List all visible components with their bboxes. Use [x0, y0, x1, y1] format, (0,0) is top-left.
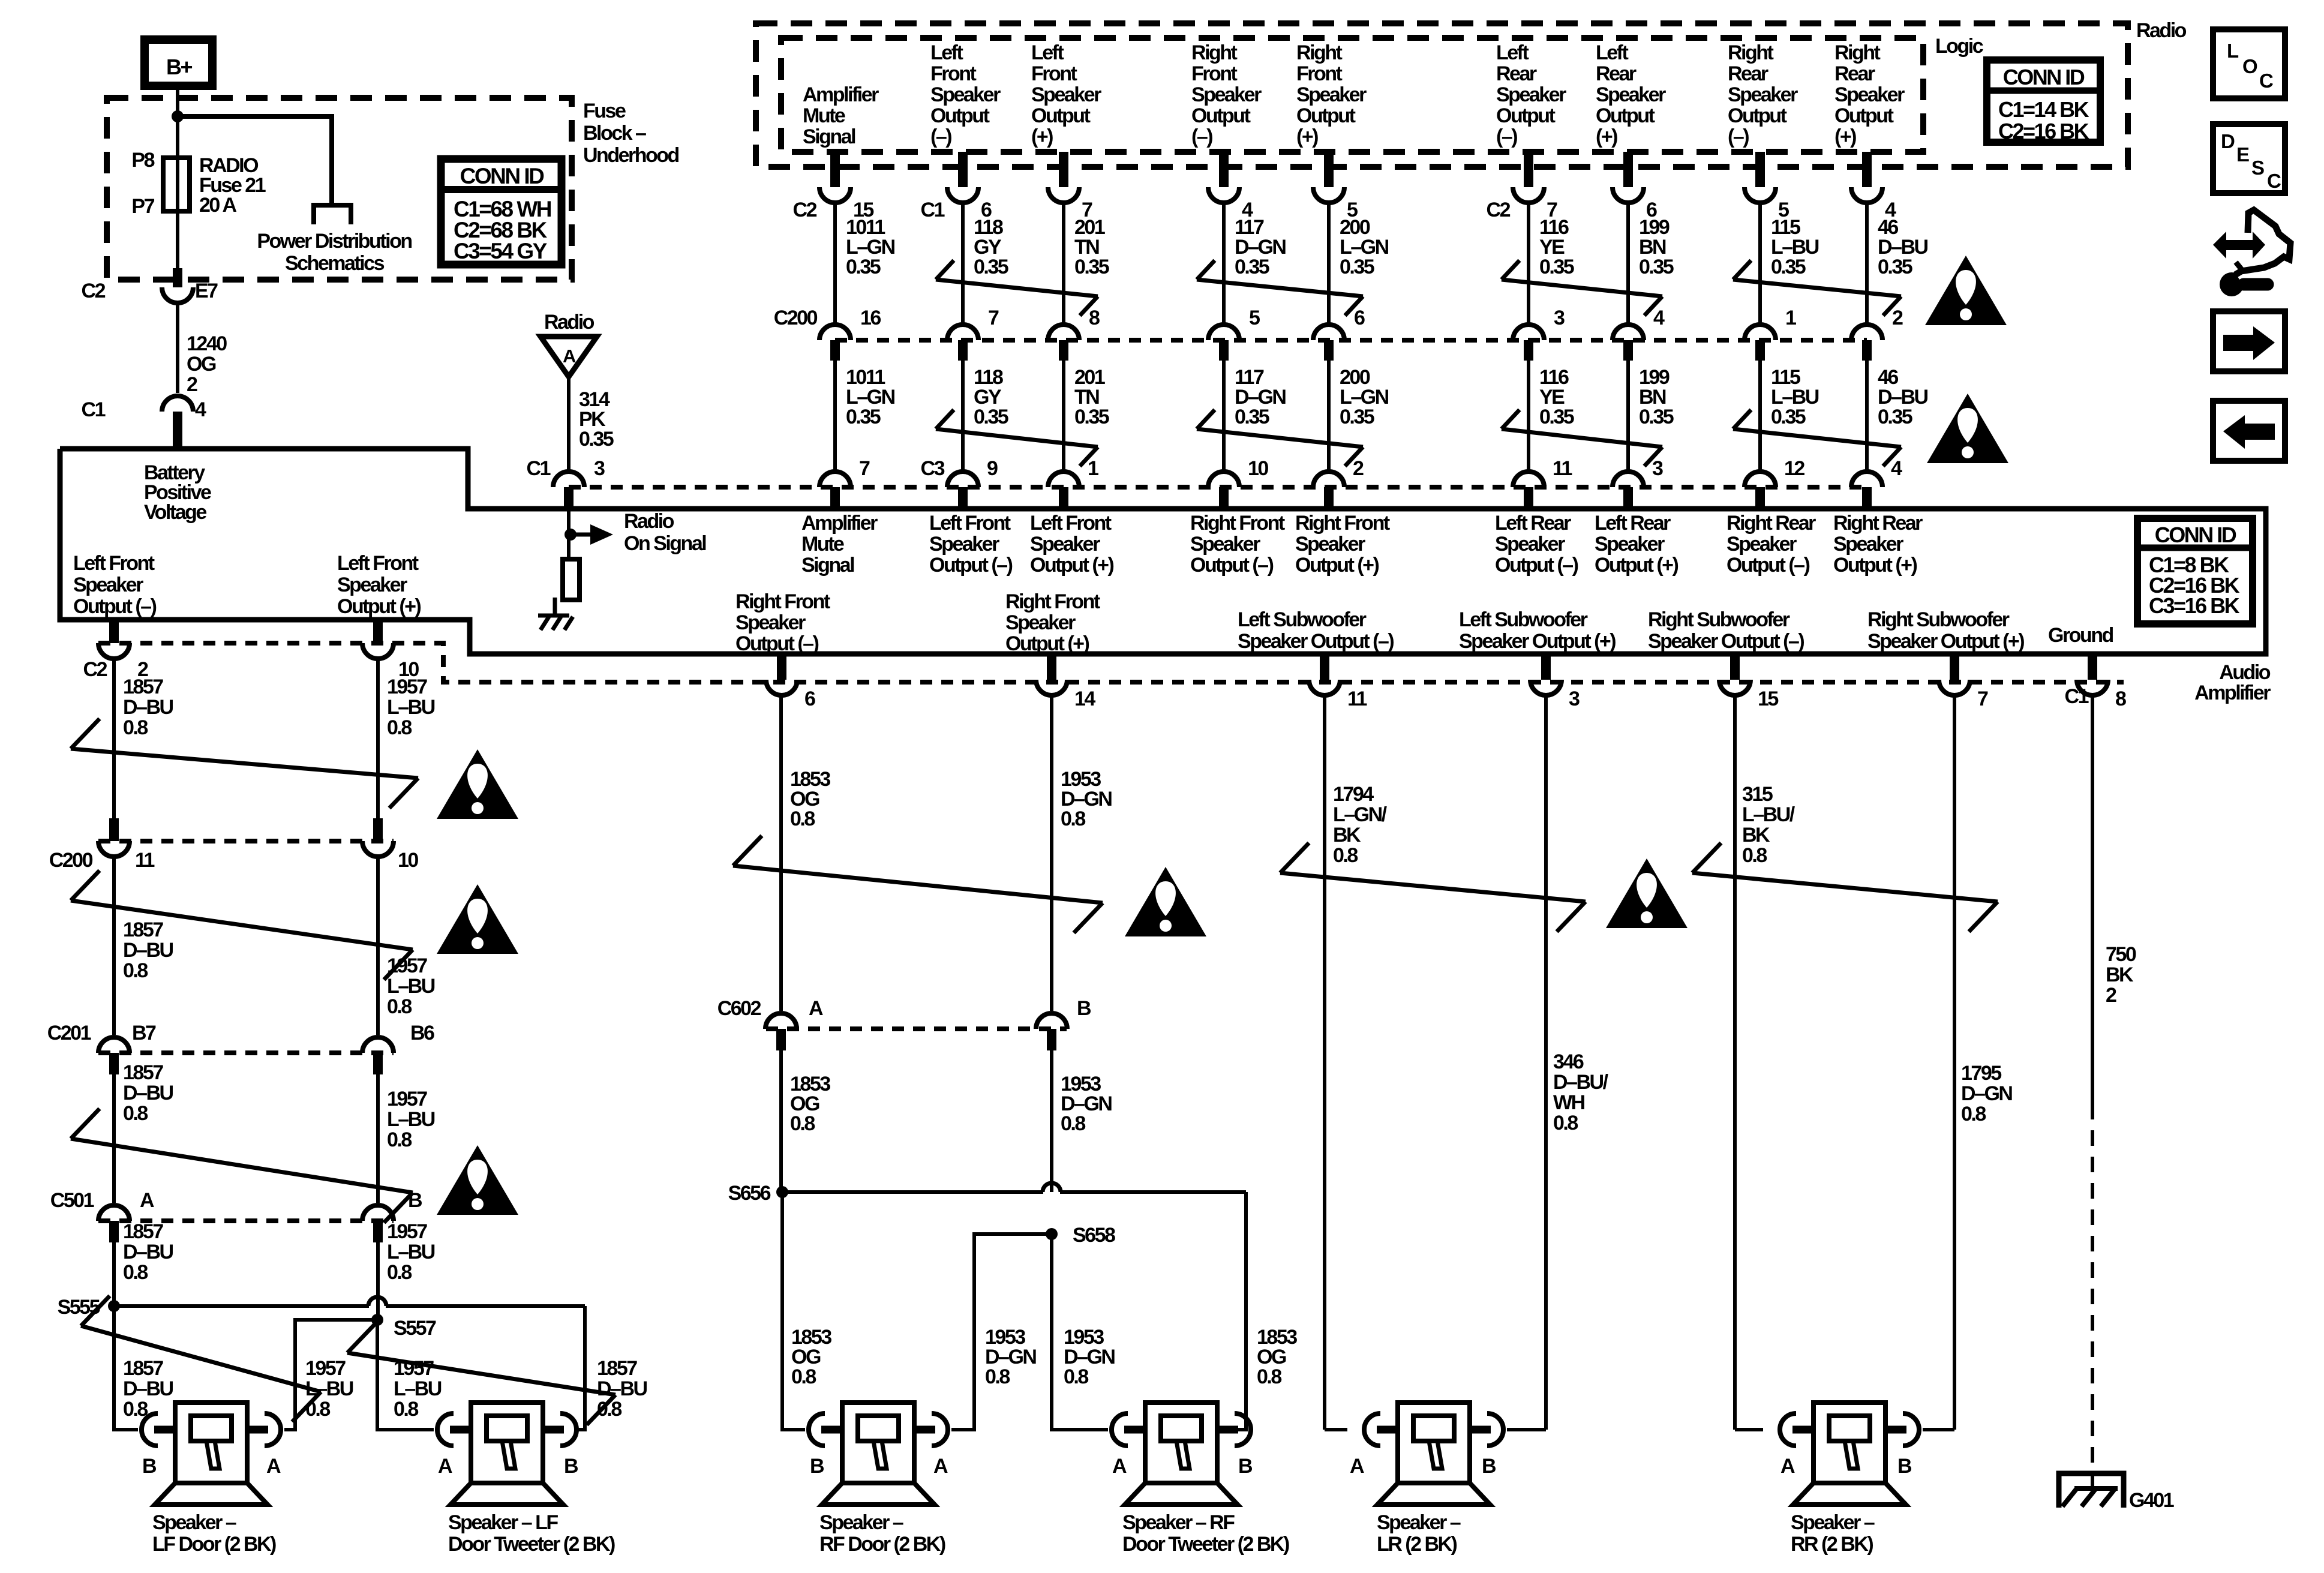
- connector row C200 dashed line: [835, 338, 1867, 343]
- wire 1795 D-GN RR plus: [1954, 695, 2012, 1430]
- svg-text:G401: G401: [2129, 1489, 2174, 1512]
- svg-text:L–GN/: L–GN/: [1333, 803, 1388, 826]
- svg-text:2: 2: [187, 373, 197, 396]
- twisted pair symbol LF above C200: [71, 719, 418, 808]
- svg-text:1857: 1857: [123, 1061, 163, 1084]
- wire fuse to C2: [173, 211, 182, 287]
- svg-text:0.35: 0.35: [1074, 406, 1109, 428]
- svg-text:Block –: Block –: [583, 122, 646, 145]
- svg-text:Output: Output: [930, 104, 990, 127]
- svg-text:L: L: [2227, 40, 2239, 62]
- terminal B RF door: [810, 1455, 824, 1478]
- svg-text:C1: C1: [82, 398, 106, 421]
- wire 46-D–BU mid col9: [1867, 361, 1928, 470]
- svg-text:C1: C1: [2065, 685, 2089, 708]
- wire 117-D–GN upper col4: [1224, 203, 1286, 323]
- svg-text:C3: C3: [921, 457, 945, 480]
- svg-text:L–BU: L–BU: [387, 1108, 435, 1131]
- svg-text:LF Door (2 BK): LF Door (2 BK): [152, 1533, 276, 1556]
- svg-text:Left Front: Left Front: [337, 552, 419, 575]
- twisted pair symbol mid: [1733, 410, 1901, 466]
- power symbol B+: [145, 40, 212, 86]
- svg-text:11: 11: [1347, 688, 1367, 710]
- svg-text:0.35: 0.35: [1878, 406, 1912, 428]
- label right front speaker output plus: [1005, 590, 1100, 655]
- wire ground dashed section: [2091, 1104, 2094, 1488]
- connector C2 amp pin 10: [362, 643, 419, 681]
- radio connector pin 7 col3: [1048, 152, 1092, 221]
- svg-text:Rear: Rear: [1728, 62, 1768, 85]
- wire 118-GY mid col2: [963, 361, 1008, 470]
- speaker LF door: [142, 1403, 281, 1505]
- connector C2 fuse block: [82, 280, 218, 303]
- connector bottom row pin 12 col8: [1744, 457, 1804, 509]
- svg-text:L–BU/: L–BU/: [1742, 803, 1795, 826]
- svg-text:Output: Output: [1496, 104, 1556, 127]
- svg-text:0.8: 0.8: [387, 716, 412, 739]
- svg-text:Left Rear: Left Rear: [1495, 512, 1571, 535]
- wire branch to power distribution: [178, 116, 332, 205]
- wire 750 BK 2 ground: [2092, 695, 2136, 1104]
- connector C200 pin 3 col6: [1513, 307, 1565, 361]
- twisted pair symbol mid: [936, 410, 1098, 466]
- twisted pair symbol RF: [733, 836, 1103, 933]
- warning triangle RF: [1125, 867, 1206, 936]
- speaker LF door tweeter: [437, 1403, 577, 1505]
- splice S656: [728, 1182, 788, 1205]
- speaker LR: [1364, 1403, 1503, 1505]
- radio output label col2: [930, 41, 1001, 148]
- amp input label col4: [1190, 512, 1285, 577]
- svg-text:Radio: Radio: [2136, 19, 2187, 42]
- wire 116-YE mid col6: [1529, 361, 1574, 470]
- svg-text:A: A: [266, 1455, 281, 1478]
- terminal A LR: [1350, 1455, 1364, 1478]
- twisted pair symbol LR: [1280, 843, 1586, 932]
- svg-text:1857: 1857: [123, 676, 163, 698]
- svg-text:(+): (+): [1031, 125, 1053, 148]
- wire 1957 L-BU below C200: [378, 857, 435, 1035]
- ground internal radio on signal: [538, 616, 573, 630]
- svg-text:7: 7: [988, 307, 999, 329]
- svg-text:Right Front: Right Front: [1190, 512, 1285, 535]
- radio output label col9: [1834, 41, 1905, 148]
- label right subwoofer speaker output minus: [1648, 608, 1804, 653]
- label left subwoofer speaker output plus: [1459, 608, 1616, 653]
- svg-text:LR (2 BK): LR (2 BK): [1377, 1533, 1457, 1556]
- antenna symbol Radio A: [541, 311, 597, 377]
- svg-text:L–BU: L–BU: [394, 1377, 442, 1400]
- svg-text:1857: 1857: [123, 1357, 163, 1380]
- svg-text:Rear: Rear: [1496, 62, 1537, 85]
- wire 200-L–GN upper col5: [1329, 203, 1389, 323]
- svg-text:1240: 1240: [187, 332, 227, 355]
- connector amplifier pin 3: [1530, 654, 1580, 710]
- icon LOC box: [2213, 29, 2285, 98]
- radio output label col4: [1191, 41, 1262, 148]
- svg-text:C2: C2: [1487, 199, 1511, 221]
- svg-text:0.8: 0.8: [1553, 1112, 1578, 1134]
- connector C501 left dashed row: [98, 1218, 394, 1223]
- svg-text:Output (+): Output (+): [1005, 632, 1089, 655]
- svg-text:11: 11: [1553, 457, 1572, 480]
- wire resistor to internal ground: [553, 598, 557, 614]
- svg-text:Mute: Mute: [801, 533, 844, 556]
- connector amplifier pin 6: [766, 654, 815, 710]
- svg-text:Left Subwoofer: Left Subwoofer: [1238, 608, 1367, 631]
- svg-text:750: 750: [2106, 943, 2136, 966]
- wire B+ to fuse: [176, 86, 179, 158]
- svg-text:C1: C1: [921, 199, 945, 221]
- svg-text:Speaker: Speaker: [930, 83, 1001, 106]
- svg-text:Output (–): Output (–): [1727, 554, 1810, 577]
- connector C200 pin 16 col1: [819, 307, 881, 361]
- svg-text:L–BU: L–BU: [387, 696, 435, 719]
- connector C602 pin A: [717, 997, 823, 1050]
- connector bottom row pin 1 col3: [1048, 457, 1098, 509]
- svg-text:12: 12: [1784, 457, 1804, 480]
- svg-text:6: 6: [804, 688, 815, 710]
- svg-text:0.35: 0.35: [1340, 406, 1374, 428]
- wire 115-L–BU mid col8: [1760, 361, 1819, 470]
- svg-text:Output: Output: [1728, 104, 1787, 127]
- svg-text:CONN ID: CONN ID: [2155, 523, 2236, 547]
- wire 1957 L-BU below C201: [378, 1074, 435, 1203]
- svg-text:S658: S658: [1073, 1224, 1115, 1247]
- svg-text:11: 11: [135, 849, 155, 872]
- svg-text:B: B: [564, 1455, 578, 1478]
- svg-text:Speaker –: Speaker –: [1377, 1511, 1461, 1534]
- label speaker RF door: [819, 1511, 945, 1556]
- svg-text:Output: Output: [1834, 104, 1894, 127]
- svg-text:E7: E7: [195, 280, 218, 302]
- svg-text:Speaker: Speaker: [1191, 83, 1262, 106]
- svg-text:7: 7: [859, 457, 870, 480]
- twisted pair symbol upper: [1733, 260, 1901, 316]
- svg-text:Door Tweeter (2 BK): Door Tweeter (2 BK): [1122, 1533, 1289, 1556]
- svg-text:0.8: 0.8: [123, 1261, 148, 1284]
- connector C200 pin 4 col7: [1613, 307, 1665, 361]
- svg-text:Radio: Radio: [624, 510, 674, 533]
- radio output label col3: [1031, 41, 1101, 148]
- splice S658: [1046, 1224, 1115, 1247]
- svg-text:S557: S557: [394, 1317, 436, 1340]
- svg-text:Front: Front: [1031, 62, 1077, 85]
- conn id table fuse block: [441, 159, 562, 265]
- wire S555 branch to tweeter B: [114, 1306, 585, 1430]
- svg-text:0.35: 0.35: [1639, 406, 1674, 428]
- radio connector pin 15 col1: [793, 152, 874, 221]
- svg-text:3: 3: [1569, 688, 1580, 710]
- svg-text:0.35: 0.35: [1771, 256, 1806, 278]
- svg-text:D–BU: D–BU: [123, 939, 173, 962]
- svg-text:Speaker: Speaker: [1295, 533, 1365, 556]
- connector C200 pin 2 col9: [1851, 307, 1903, 361]
- svg-text:Power Distribution: Power Distribution: [257, 230, 412, 253]
- svg-text:C501: C501: [50, 1189, 94, 1212]
- svg-text:Front: Front: [930, 62, 977, 85]
- wire C1 to battery box: [173, 412, 182, 449]
- svg-text:C: C: [2267, 170, 2281, 192]
- svg-text:D–GN: D–GN: [1961, 1082, 2012, 1105]
- twisted pair symbol LF above C201: [71, 870, 413, 980]
- amp input label col6: [1495, 512, 1578, 577]
- wire 1953 branch label: [985, 1326, 1036, 1388]
- radio connector pin 5 col5: [1313, 152, 1358, 221]
- svg-text:1857: 1857: [123, 1220, 163, 1243]
- label C1 amplifier connector: [2065, 685, 2089, 708]
- svg-text:C3=16 BK: C3=16 BK: [2149, 593, 2240, 618]
- svg-text:Speaker: Speaker: [337, 574, 407, 596]
- terminal A LF door: [266, 1455, 281, 1478]
- connector amplifier pin 15: [1719, 654, 1778, 710]
- terminal A LF tweeter: [438, 1455, 452, 1478]
- wire 117-D–GN mid col4: [1224, 361, 1286, 470]
- svg-text:1857: 1857: [123, 918, 163, 941]
- svg-text:0.8: 0.8: [790, 1112, 815, 1135]
- svg-text:Right Front: Right Front: [1295, 512, 1390, 535]
- svg-text:Left Subwoofer: Left Subwoofer: [1459, 608, 1588, 631]
- svg-text:(+): (+): [1296, 125, 1318, 148]
- connector amplifier pin 8: [2077, 654, 2126, 710]
- label right subwoofer speaker output plus: [1867, 608, 2024, 653]
- svg-text:346: 346: [1553, 1050, 1584, 1073]
- svg-text:A: A: [1350, 1455, 1364, 1478]
- svg-text:E: E: [2236, 143, 2249, 166]
- svg-text:0.8: 0.8: [1961, 1103, 1986, 1125]
- svg-text:B: B: [142, 1455, 157, 1478]
- svg-text:Output (+): Output (+): [1295, 554, 1379, 577]
- svg-text:A: A: [563, 346, 576, 367]
- svg-text:0.35: 0.35: [1235, 406, 1269, 428]
- wire 1953 D-GN amp to C602: [1052, 695, 1112, 1011]
- connector bottom dashed row: [569, 485, 1867, 490]
- wire 115-L–BU upper col8: [1760, 203, 1819, 323]
- terminal B RR: [1897, 1455, 1912, 1478]
- svg-text:C201: C201: [47, 1022, 91, 1044]
- svg-text:CONN ID: CONN ID: [460, 164, 545, 188]
- icon wrench with arrows: [2213, 210, 2290, 296]
- wire 1857 D-BU below C200: [114, 857, 173, 1035]
- svg-text:Left Front: Left Front: [929, 512, 1011, 535]
- svg-text:(–): (–): [1191, 125, 1212, 148]
- radio output label col5: [1296, 41, 1367, 148]
- svg-text:Right Rear: Right Rear: [1833, 512, 1923, 535]
- svg-text:(+): (+): [1834, 125, 1856, 148]
- svg-text:5: 5: [1249, 307, 1260, 329]
- fuse block underhood dashed box: [107, 98, 572, 280]
- wire LF door minus to speaker: [114, 1306, 173, 1430]
- svg-text:B6: B6: [410, 1022, 434, 1044]
- svg-text:D–BU: D–BU: [123, 1241, 173, 1263]
- wire 46-D–BU upper col9: [1867, 203, 1928, 323]
- svg-text:0.8: 0.8: [1064, 1365, 1088, 1388]
- svg-text:Output (–): Output (–): [929, 554, 1013, 577]
- svg-text:Right Rear: Right Rear: [1727, 512, 1816, 535]
- wire 1957 L-BU below C501: [378, 1220, 435, 1320]
- connector C200 pin 11: [49, 818, 155, 872]
- svg-text:(–): (–): [1728, 125, 1749, 148]
- svg-text:Logic: Logic: [1935, 35, 1983, 58]
- twisted pair symbol RR: [1692, 843, 1998, 932]
- icon arrow right box: [2213, 311, 2285, 371]
- wire 199-BN upper col7: [1628, 203, 1674, 323]
- svg-text:C200: C200: [49, 849, 93, 872]
- wire LF plus stub below box: [373, 620, 383, 643]
- conn id table radio: [1987, 60, 2100, 143]
- speaker RF door: [809, 1403, 948, 1505]
- svg-text:Speaker: Speaker: [1496, 83, 1566, 106]
- wire 201-TN mid col3: [1064, 361, 1109, 470]
- svg-text:C1: C1: [527, 457, 551, 480]
- svg-text:Front: Front: [1191, 62, 1238, 85]
- wire S658 branch to RF door A: [951, 1234, 1052, 1430]
- svg-text:Right Subwoofer: Right Subwoofer: [1648, 608, 1790, 631]
- junction radio on signal: [565, 529, 577, 541]
- wire 201-TN upper col3: [1064, 203, 1109, 323]
- svg-text:Speaker – RF: Speaker – RF: [1122, 1511, 1235, 1534]
- connector C1 radio pin 3: [527, 457, 605, 487]
- svg-text:Right: Right: [1728, 41, 1774, 64]
- wire 314 PK 0.35: [569, 377, 614, 470]
- svg-text:B: B: [1482, 1455, 1496, 1478]
- svg-text:0.35: 0.35: [1639, 256, 1674, 278]
- svg-text:4: 4: [1653, 307, 1665, 329]
- terminal A RF tweeter: [1112, 1455, 1127, 1478]
- label speaker LF door: [152, 1511, 276, 1556]
- twisted pair symbol mid: [1197, 410, 1363, 466]
- svg-text:0.8: 0.8: [790, 807, 815, 830]
- terminal B RF tweeter: [1238, 1455, 1253, 1478]
- svg-text:0.35: 0.35: [846, 406, 881, 428]
- svg-text:Speaker: Speaker: [1296, 83, 1367, 106]
- label speaker LR: [1377, 1511, 1461, 1556]
- wire 1857 branch label: [597, 1357, 647, 1421]
- svg-text:0.35: 0.35: [579, 428, 614, 451]
- amp input label col9: [1833, 512, 1923, 577]
- svg-text:Front: Front: [1296, 62, 1343, 85]
- svg-text:Right Front: Right Front: [1005, 590, 1100, 613]
- connector bottom row pin 11 col6: [1513, 457, 1572, 509]
- svg-text:0.35: 0.35: [974, 256, 1008, 278]
- wire 1957 L-BU below C2: [378, 659, 435, 818]
- icon DESC box: [2213, 124, 2285, 193]
- wire LF minus stub below box: [109, 620, 119, 643]
- connector C602 pin B: [1036, 997, 1091, 1050]
- svg-text:B: B: [408, 1189, 422, 1212]
- connector C200 pin 10: [362, 818, 418, 872]
- svg-text:O: O: [2242, 55, 2257, 77]
- svg-text:Ground: Ground: [2048, 624, 2113, 647]
- label RADIO Fuse 21 20 A: [199, 154, 266, 217]
- svg-text:Signal: Signal: [803, 125, 855, 148]
- radio output label col1: [803, 83, 879, 148]
- ground G401: [2059, 1473, 2174, 1512]
- svg-text:0.8: 0.8: [1061, 1112, 1085, 1135]
- hop over tweeter wire: [368, 1297, 386, 1306]
- svg-text:Speaker: Speaker: [1833, 533, 1903, 556]
- connector C200 pin 6 col5: [1313, 307, 1365, 361]
- terminal B LF tweeter: [564, 1455, 578, 1478]
- svg-text:Speaker – LF: Speaker – LF: [448, 1511, 558, 1534]
- svg-text:15: 15: [1758, 688, 1778, 710]
- svg-text:7: 7: [1977, 688, 1988, 710]
- svg-text:Amplifier: Amplifier: [801, 512, 878, 535]
- connector C200 pin 7 col2: [947, 307, 999, 361]
- svg-text:8: 8: [2115, 688, 2126, 710]
- svg-text:Left: Left: [1596, 41, 1629, 64]
- svg-text:D–BU: D–BU: [123, 1377, 173, 1400]
- amp input label col7: [1595, 512, 1679, 577]
- arrow radio on signal: [571, 510, 706, 555]
- label left subwoofer speaker output minus: [1238, 608, 1394, 653]
- connector bottom row pin 2 col5: [1313, 457, 1364, 509]
- svg-text:C602: C602: [717, 997, 761, 1020]
- warning triangle radio right upper: [1925, 256, 2007, 325]
- svg-text:0.8: 0.8: [791, 1365, 816, 1388]
- amp input label col8: [1727, 512, 1816, 577]
- svg-text:Signal: Signal: [801, 554, 854, 577]
- svg-text:1: 1: [1088, 457, 1098, 480]
- svg-text:Output: Output: [1296, 104, 1356, 127]
- twisted pair symbol upper: [1502, 260, 1662, 316]
- svg-text:(+): (+): [1596, 125, 1617, 148]
- svg-text:Output (–): Output (–): [1495, 554, 1578, 577]
- svg-text:A: A: [809, 997, 823, 1020]
- svg-text:Speaker: Speaker: [1595, 533, 1665, 556]
- wire RR minus into speaker: [1735, 1428, 1763, 1431]
- svg-text:D–BU: D–BU: [123, 696, 173, 719]
- connector C200 left dashed row: [98, 839, 394, 843]
- amp input label col1: [801, 512, 878, 577]
- svg-text:B+: B+: [166, 55, 192, 79]
- svg-text:A: A: [933, 1455, 948, 1478]
- terminal B LR: [1482, 1455, 1496, 1478]
- connector C2 amp dashed row: [98, 643, 2124, 682]
- svg-text:C2: C2: [83, 658, 107, 681]
- svg-text:0.8: 0.8: [123, 1102, 148, 1125]
- svg-text:B7: B7: [132, 1022, 156, 1044]
- svg-text:L–BU: L–BU: [387, 1241, 435, 1263]
- wire 1953 D-GN below C602: [1052, 1050, 1112, 1192]
- twisted pair symbol mid: [1502, 410, 1662, 466]
- svg-text:Speaker Output (+): Speaker Output (+): [1867, 630, 2024, 653]
- speaker RR: [1780, 1403, 1919, 1505]
- label Fuse Block - Underhood: [583, 100, 679, 167]
- svg-text:2: 2: [1353, 457, 1364, 480]
- amp input label col2: [929, 512, 1013, 577]
- icon arrow left box: [2213, 401, 2285, 461]
- bracket power distribution schematics: [257, 205, 412, 275]
- fuse RADIO Fuse 21 20 A: [163, 158, 190, 211]
- svg-text:Speaker –: Speaker –: [1791, 1511, 1875, 1534]
- svg-text:D–BU/: D–BU/: [1553, 1071, 1609, 1094]
- connector C201 pin B6: [362, 1022, 434, 1074]
- svg-text:S: S: [2251, 157, 2264, 179]
- label speaker RF door tweeter: [1122, 1511, 1289, 1556]
- radio connector pin 5 col8: [1744, 152, 1789, 221]
- radio connector pin 4 col4: [1208, 152, 1253, 221]
- warning triangle radio right lower: [1927, 394, 2008, 463]
- svg-text:Fuse: Fuse: [583, 100, 626, 122]
- svg-text:Rear: Rear: [1834, 62, 1875, 85]
- svg-text:0.8: 0.8: [387, 995, 412, 1018]
- svg-text:Speaker: Speaker: [1031, 83, 1101, 106]
- svg-text:Speaker: Speaker: [1727, 533, 1797, 556]
- svg-text:C: C: [2259, 70, 2273, 92]
- junction node at B+ wire: [172, 110, 184, 122]
- svg-text:Speaker: Speaker: [735, 611, 806, 634]
